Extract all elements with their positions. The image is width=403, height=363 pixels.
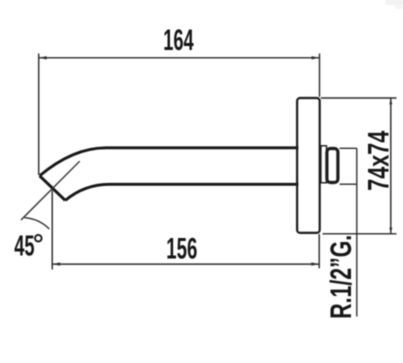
extension line top xyxy=(321,97,397,99)
wire: spout mouth edge xyxy=(40,176,66,201)
arrow top of 74x74 xyxy=(389,98,392,104)
tick nut bottom xyxy=(340,183,357,185)
svg-text:156: 156 xyxy=(166,232,197,265)
angle reference diagonal xyxy=(21,161,80,220)
arrow left of 164 xyxy=(39,56,47,59)
dimension line xyxy=(39,57,320,59)
extension line left xyxy=(38,54,40,176)
dimension 74x74 xyxy=(321,98,397,234)
arrow bottom of 74x74 xyxy=(389,228,392,234)
extension line right xyxy=(318,234,320,268)
angle arc xyxy=(25,218,50,229)
wire: tube inner curve xyxy=(65,184,109,200)
dimension 164 xyxy=(39,54,320,176)
arrow right of 164 xyxy=(312,56,320,59)
wire: tube bottom straight xyxy=(110,183,299,186)
45 degree indicator xyxy=(21,161,80,229)
degree symbol xyxy=(35,235,42,242)
svg-text:R.1/2”G.: R.1/2”G. xyxy=(325,235,358,319)
dimension 156 xyxy=(52,191,319,270)
tick nut top xyxy=(340,147,357,149)
extension line left xyxy=(51,191,53,270)
nut body xyxy=(327,149,338,183)
extension line right xyxy=(319,54,321,97)
collar step xyxy=(321,146,327,183)
dimension line xyxy=(52,263,319,265)
dimension line vertical xyxy=(390,98,392,234)
svg-text:164: 164 xyxy=(163,24,194,57)
flange plate xyxy=(297,98,320,233)
arrow left of 156 xyxy=(53,262,61,265)
arrow right of 156 xyxy=(311,262,319,265)
thread leader R.1/2"G. xyxy=(340,148,357,316)
leader vertical line xyxy=(356,148,358,316)
svg-text:45: 45 xyxy=(14,231,34,263)
svg-text:74x74: 74x74 xyxy=(362,130,395,190)
wire: tube top straight xyxy=(106,146,298,149)
spout tube outline xyxy=(40,148,299,201)
extension line bottom xyxy=(323,233,397,235)
faint corner smudge xyxy=(385,0,403,9)
wire: tube outer curve xyxy=(40,148,106,176)
